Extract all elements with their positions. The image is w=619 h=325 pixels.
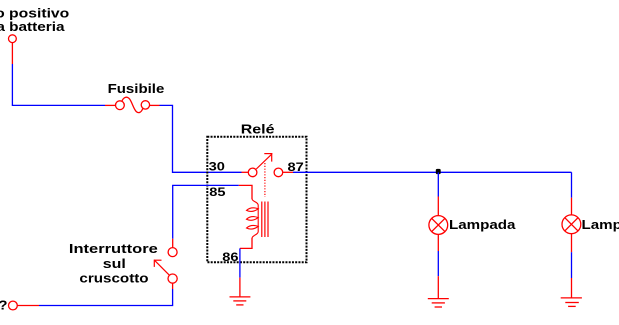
switch S1 upper contact — [168, 248, 177, 257]
wire: pin 85 red into coil — [239, 185, 252, 199]
switch S1 arm with arrow — [154, 260, 169, 276]
wire: lamp 2 drop red — [571, 198, 573, 216]
wire: battery horizontal blue to fuse — [12, 104, 105, 106]
svg-text:?: ? — [0, 297, 8, 312]
wire: red stub to bottom-left terminal — [17, 305, 39, 307]
svg-text:30: 30 — [209, 160, 225, 173]
wire: lamp 2 lower red to ground — [571, 278, 573, 298]
svg-text:Fusibile: Fusibile — [108, 81, 165, 96]
svg-text:cruscotto: cruscotto — [79, 271, 149, 286]
wire: switch drop blue from pin 85 line — [172, 185, 174, 238]
svg-text:o positivo: o positivo — [0, 7, 69, 21]
wire: lamp 2 drop blue — [571, 172, 573, 197]
svg-text:87: 87 — [288, 160, 304, 173]
relay box (dotted) — [207, 137, 306, 262]
label: Interruttore sul cruscotto — [69, 243, 158, 286]
wire: switch lower red stub — [172, 283, 174, 289]
svg-text:Relé: Relé — [241, 123, 275, 137]
wire: battery terminal to fuse (red stub down) — [11, 43, 13, 64]
terminal: bottom-left (clipped label) — [9, 301, 18, 310]
wire: lamp 1 lower red — [437, 234, 439, 251]
wire: lamp 2 lower red — [571, 234, 573, 253]
svg-text:Interruttore: Interruttore — [69, 243, 158, 257]
wire: pin 86 blue segment — [239, 248, 241, 277]
wire: lamp 2 lower blue — [571, 252, 573, 278]
ground: lamp 2 — [561, 298, 582, 307]
svg-text:sul: sul — [103, 257, 126, 271]
wire: lamp 1 drop red — [437, 197, 439, 216]
wire: red stub out of fuse — [150, 104, 160, 106]
wire: lamp 1 lower red to ground — [437, 276, 439, 298]
wire: lamp 1 lower blue — [437, 251, 439, 276]
ground: relay coil — [230, 297, 251, 305]
wire: red stub into pin 30 — [242, 171, 249, 173]
wire: battery vertical blue — [11, 64, 13, 105]
relay switch contact 30 — [248, 168, 257, 177]
wire: switch to bottom-left blue — [39, 289, 173, 306]
ground: lamp 1 — [428, 299, 449, 307]
svg-text:Lampada: Lampada — [449, 217, 516, 232]
wire: pin 85 blue horizontal — [172, 184, 239, 186]
wire: red stub out of pin 87 — [283, 171, 293, 173]
relay switch arm with arrow — [256, 153, 272, 169]
wire: pin 87 blue horizontal to lamps — [293, 171, 572, 173]
wire: pin 86 red to ground — [239, 278, 241, 297]
wire: lamp 1 drop blue — [437, 172, 439, 196]
fuse F1 — [116, 97, 150, 112]
relay switch contact 87 — [274, 168, 283, 177]
wire: switch drop red stub — [172, 239, 174, 248]
svg-text:Lampada: Lampada — [582, 217, 619, 232]
lamp L1 — [429, 216, 448, 235]
terminal: battery positive — [9, 35, 17, 43]
svg-text:85: 85 — [209, 185, 225, 198]
junction node — [436, 169, 441, 174]
label: Polo positivo della batteria — [0, 7, 69, 35]
relay coil — [247, 199, 259, 239]
wire: fuse to relay corner blue — [160, 105, 242, 172]
svg-text:a batteria: a batteria — [0, 20, 65, 35]
switch S1 lower contact — [168, 274, 177, 283]
relay actuation dotted line — [264, 163, 266, 197]
lamp L2 — [562, 215, 581, 234]
wire: red stub into fuse — [105, 104, 115, 106]
svg-text:86: 86 — [222, 250, 238, 263]
wire: coil bottom to pin 86 red — [240, 238, 252, 248]
relay core lines — [262, 202, 268, 238]
